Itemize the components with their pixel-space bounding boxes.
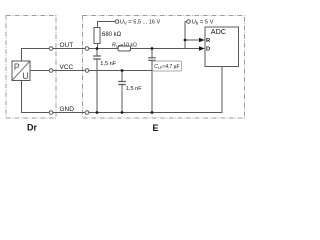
svg-text:1,5 nF: 1,5 nF (100, 61, 116, 67)
svg-text:1,5 nF: 1,5 nF (126, 86, 142, 92)
svg-text:680 kΩ: 680 kΩ (102, 32, 122, 38)
svg-text:E: E (153, 123, 159, 133)
svg-text:D: D (206, 47, 210, 53)
svg-text:Ub = 5 V: Ub = 5 V (192, 20, 214, 26)
svg-text:P: P (14, 62, 20, 72)
svg-text:UV = 5,5 ... 16 V: UV = 5,5 ... 16 V (120, 20, 161, 26)
svg-text:U: U (22, 71, 29, 81)
svg-text:ADC: ADC (211, 27, 226, 36)
svg-text:OUT: OUT (60, 42, 74, 49)
svg-text:VCC: VCC (60, 64, 74, 71)
svg-text:GND: GND (60, 106, 75, 113)
svg-text:Dr: Dr (27, 123, 37, 133)
